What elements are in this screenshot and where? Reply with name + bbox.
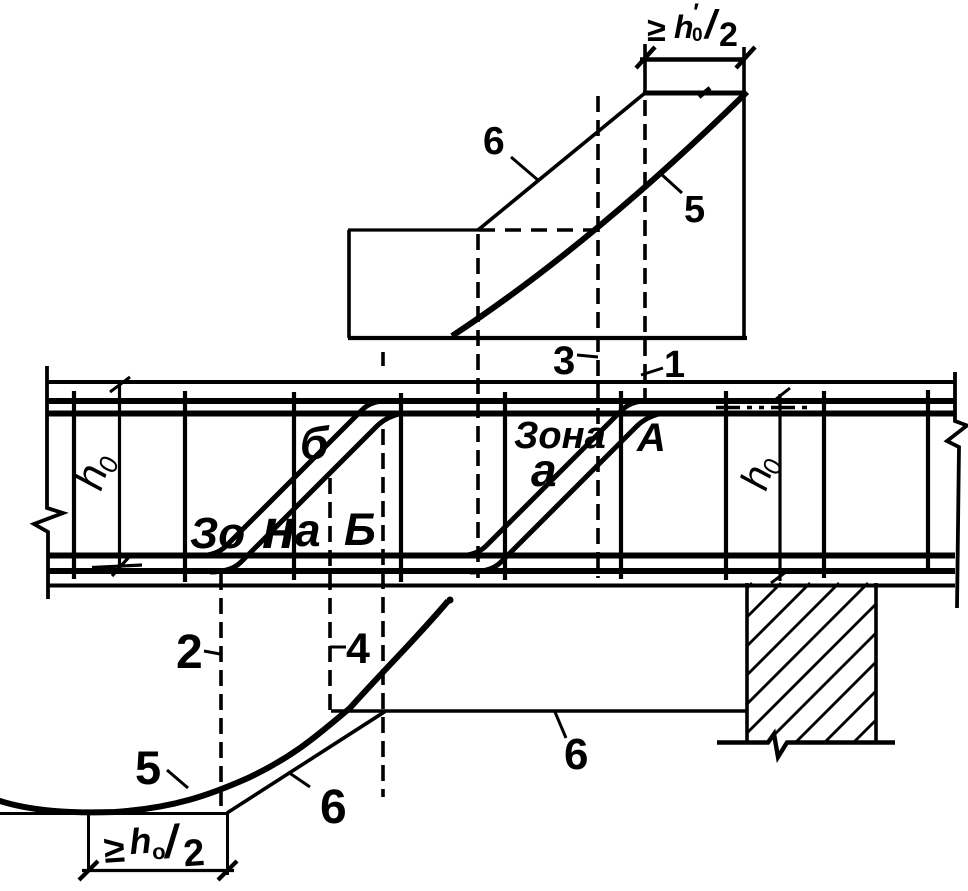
left h0 top tick	[110, 377, 130, 392]
dim tick right	[736, 47, 755, 68]
dimension line h0/2	[82, 869, 234, 872]
left h0 text	[65, 446, 125, 496]
left h0 dimension line	[118, 384, 121, 569]
svg-text:3: 3	[553, 339, 575, 383]
right h0 top tick	[771, 388, 790, 403]
dashed vertical x=221	[219, 574, 223, 812]
bent bar 1 upper line	[196, 401, 386, 556]
rectangle right edge	[742, 47, 746, 338]
support top thick line	[643, 91, 746, 96]
tick for label 3	[577, 355, 598, 357]
stirrup x=928	[926, 390, 930, 574]
hatch lines	[747, 583, 876, 742]
bottom bar line 1	[47, 553, 955, 559]
beam right edge with break	[947, 372, 967, 608]
dimension line h'0/2	[640, 57, 744, 61]
stirrup x=294	[292, 392, 296, 580]
tick for label 2	[204, 651, 220, 654]
svg-text:Зона: Зона	[514, 415, 606, 457]
top bar line 2	[47, 411, 955, 417]
bent bar 2 lower line	[470, 414, 661, 573]
dim tick left	[636, 47, 655, 68]
svg-text:6: 6	[320, 781, 347, 834]
svg-text:6: 6	[483, 120, 505, 163]
svg-text:0: 0	[692, 25, 703, 46]
right h0 bottom tick	[771, 569, 790, 583]
leader for label 5	[167, 770, 188, 788]
dashed vertical x=598	[596, 96, 600, 578]
svg-text:а: а	[531, 444, 557, 496]
thick moment curve 5 (top)	[452, 92, 747, 336]
column right edge	[874, 583, 878, 742]
dim tick right bottom	[218, 861, 237, 880]
svg-text:≥: ≥	[102, 829, 126, 872]
left h0 bottom tick	[92, 565, 142, 568]
svg-text:h: h	[128, 820, 153, 862]
bent bar 1 lower line	[210, 414, 401, 573]
rectangle top edge	[348, 228, 479, 231]
dimension box left vertical	[87, 813, 90, 869]
horizontal thin line to column	[331, 709, 746, 713]
ground line with break	[717, 734, 895, 757]
svg-text:Б: Б	[344, 504, 376, 555]
curve tip blob	[447, 597, 454, 604]
bottom bar line 2	[47, 568, 955, 574]
stirrup x=185	[183, 391, 187, 582]
thick moment curve 5 (bottom)	[0, 601, 448, 812]
dimension text >= h0/2	[102, 813, 206, 881]
stirrup x=621	[619, 391, 623, 579]
svg-text:2: 2	[176, 626, 203, 679]
leader for label 5	[660, 173, 682, 193]
small arrow on thick line	[699, 88, 710, 97]
beam bottom edge	[47, 584, 955, 588]
beam top edge	[47, 380, 955, 384]
svg-text:2: 2	[719, 16, 738, 54]
tick for label 4	[330, 646, 346, 649]
right h0 text	[733, 450, 789, 496]
thin cutoff line 6 (bottom)	[227, 712, 385, 814]
dimension box h0/2 top line	[0, 812, 228, 815]
svg-text:а: а	[295, 504, 321, 556]
leader for label 6	[288, 772, 310, 787]
stirrup x=505	[503, 392, 507, 580]
dashed vertical x=645	[643, 100, 647, 404]
svg-text:1: 1	[664, 344, 685, 386]
leader for right label 6	[555, 712, 566, 738]
stirrup x=74	[72, 391, 76, 579]
svg-text:Зо: Зо	[190, 509, 245, 558]
svg-text:≥: ≥	[647, 11, 666, 49]
beam left edge with break	[34, 366, 63, 599]
stirrup x=726	[724, 391, 728, 580]
svg-text:5: 5	[135, 741, 161, 794]
svg-text:5: 5	[684, 189, 705, 231]
right h0 dimension line	[778, 394, 781, 581]
stirrup x=824	[822, 391, 826, 578]
rectangle left edge	[347, 230, 351, 338]
svg-text:А: А	[636, 416, 666, 460]
svg-text:б: б	[300, 417, 330, 469]
dashed vertical x=383	[381, 352, 385, 366]
leader for label 1	[641, 368, 663, 375]
stirrup x=401	[399, 393, 403, 582]
top bar line 1	[47, 398, 955, 404]
svg-text:2: 2	[182, 832, 206, 875]
bent bar 2 upper line	[456, 401, 646, 556]
thin cutoff line 6 (top)	[478, 93, 645, 230]
column left edge	[745, 583, 749, 742]
svg-text:н: н	[262, 497, 296, 560]
dimension box right vertical	[226, 813, 229, 875]
axis dash-dot mark	[716, 406, 812, 409]
dashed vertical x=330	[328, 478, 332, 711]
extension line left (x=645)	[643, 44, 647, 95]
svg-text:4: 4	[346, 625, 370, 673]
rectangle bottom edge	[348, 336, 747, 340]
dashed vertical x=478	[476, 234, 480, 578]
dimension text >= h'0/2	[647, 0, 738, 54]
dashed continuation of rect top edge	[479, 228, 600, 232]
dim tick left bottom	[79, 861, 98, 880]
leader for label 6	[511, 157, 539, 181]
svg-text:6: 6	[564, 730, 588, 779]
svg-text:h: h	[674, 9, 694, 45]
